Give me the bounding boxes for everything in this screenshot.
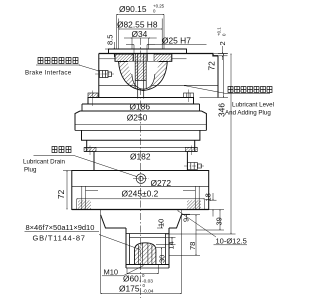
ring gear bolts	[84, 146, 197, 156]
leader spline	[99, 235, 140, 250]
svg-text:8×46f7×50a11×9d10: 8×46f7×50a11×9d10	[26, 223, 95, 232]
svg-text:GB/T1144-87: GB/T1144-87	[33, 234, 86, 243]
dimension 78	[169, 215, 200, 256]
svg-text:Ø82.55 H8: Ø82.55 H8	[117, 20, 158, 30]
right adding plug	[184, 90, 194, 103]
svg-text:8.5: 8.5	[106, 35, 115, 45]
svg-text:Ø175.: Ø175.	[119, 284, 142, 294]
svg-text:9: 9	[182, 218, 191, 222]
dimension D34	[124, 38, 157, 49]
output pilot edges / D175 extension	[100, 210, 102, 294]
svg-text:Ø60.: Ø60.	[123, 274, 141, 284]
output spline shaft	[135, 243, 156, 265]
dimension 72 right	[200, 54, 229, 98]
svg-text:2: 2	[218, 41, 227, 45]
housing left wall	[98, 54, 100, 98]
dimension 39	[196, 210, 224, 231]
svg-text:Ø182: Ø182	[130, 151, 151, 161]
brake interface fitting	[95, 71, 114, 78]
svg-text:Lubricant Level: Lubricant Level	[232, 102, 274, 109]
left stud	[88, 91, 98, 107]
label brake interface	[38, 58, 78, 64]
motor flange plate	[115, 54, 172, 62]
leader lubricant level	[184, 86, 226, 94]
dimension D90.15	[117, 15, 165, 49]
top plate D186	[88, 98, 194, 105]
spacer ring	[82, 104, 200, 111]
flange bottom face	[72, 209, 209, 211]
svg-text:0: 0	[222, 33, 227, 36]
bell cavity outline	[132, 74, 155, 89]
svg-text:30: 30	[158, 255, 167, 263]
svg-text:18: 18	[204, 193, 213, 201]
output housing box	[126, 228, 169, 268]
centerline	[140, 38, 142, 298]
spline bore	[130, 234, 166, 265]
bell inner cavity	[128, 62, 159, 90]
svg-text:M10: M10	[104, 268, 119, 277]
svg-text:Ø245±0.2: Ø245±0.2	[122, 189, 159, 199]
svg-text:10-Ø12.5: 10-Ø12.5	[216, 237, 247, 246]
dimension 10	[157, 222, 163, 228]
dimension 9	[182, 214, 191, 219]
svg-text:-0.04: -0.04	[143, 289, 154, 295]
housing right wall	[217, 56, 219, 98]
dimension 346	[166, 54, 236, 235]
dimension D25	[126, 45, 207, 54]
brake cap plate	[109, 49, 187, 54]
svg-text:Ø90.15: Ø90.15	[119, 4, 147, 14]
side fitting right	[184, 163, 204, 170]
leader brake interface	[79, 65, 99, 71]
dimension 14	[156, 237, 176, 244]
input shaft	[135, 54, 146, 99]
D250 barrel	[75, 111, 206, 152]
svg-text:Ø250: Ø250	[127, 113, 148, 123]
svg-text:39: 39	[215, 217, 224, 225]
housing top face	[99, 54, 218, 56]
dimension D82.55	[119, 19, 163, 49]
motor flange hatched left	[116, 54, 134, 61]
main flange D272	[72, 171, 209, 210]
housing ledge lines	[99, 58, 115, 60]
flange inner step line	[86, 189, 99, 191]
bell housing hatched section	[119, 62, 168, 91]
drain plug circle	[133, 174, 149, 184]
flange bolt hole right	[187, 186, 201, 209]
svg-text:78: 78	[188, 242, 197, 250]
svg-text:Ø25 H7: Ø25 H7	[162, 36, 191, 46]
dimension 8.5	[105, 42, 114, 57]
leader 10-D12.5	[178, 211, 217, 238]
leader drain plug	[74, 156, 137, 177]
svg-text:Ø186: Ø186	[130, 101, 151, 111]
dimension 72 left	[63, 171, 72, 210]
label lubricant level	[228, 87, 272, 93]
svg-text:Ø34: Ø34	[132, 29, 148, 39]
svg-text:72: 72	[56, 189, 66, 199]
housing inner flange line	[99, 84, 218, 86]
svg-text:72: 72	[207, 61, 217, 71]
svg-text:Lubricant Drain: Lubricant Drain	[23, 159, 66, 166]
dimension D60	[127, 265, 159, 274]
svg-text:And Adding Plug: And Adding Plug	[225, 110, 271, 117]
motor flange hatched right	[154, 54, 171, 61]
output cone left	[101, 215, 126, 228]
dimension D245	[77, 199, 205, 210]
flange bolt hole left	[78, 186, 91, 209]
label drain plug	[52, 147, 71, 153]
dimension 30	[156, 248, 165, 265]
svg-text:14: 14	[167, 241, 176, 249]
svg-text:0: 0	[153, 9, 156, 14]
flange bore lines	[134, 54, 148, 62]
svg-text:Brake Interface: Brake Interface	[25, 70, 72, 77]
svg-text:Ø272: Ø272	[151, 178, 172, 188]
svg-text:Plug: Plug	[24, 167, 37, 174]
dimension 18	[209, 193, 217, 217]
leader M10	[123, 266, 144, 276]
output cone right	[169, 215, 182, 228]
dimension D175	[101, 293, 182, 295]
D182 section	[94, 152, 187, 171]
svg-text:10: 10	[157, 219, 166, 227]
dimension 2+0.1	[214, 46, 228, 60]
